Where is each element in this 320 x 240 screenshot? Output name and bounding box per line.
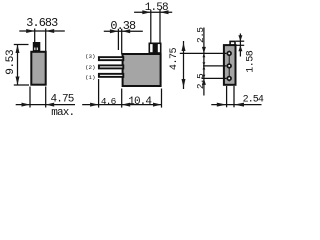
svg-text:4.75: 4.75 <box>50 93 73 105</box>
bottom dims ext body right <box>161 89 163 108</box>
dim 2.54 line <box>211 104 261 106</box>
pin label (1) <box>85 74 95 81</box>
dim 4.75 max left arrow <box>22 103 31 107</box>
dim 0.38 right arrow <box>122 29 131 33</box>
dim 4.6 left arrow <box>90 103 99 107</box>
dim 0.38 label <box>110 19 136 33</box>
svg-text:2.54: 2.54 <box>243 95 264 106</box>
dim 2.5 ext hole1 <box>180 52 227 54</box>
dim 2.54 label <box>243 95 264 106</box>
dim 2.54 right arrow <box>234 103 244 107</box>
dim 2.5 ext hole3 <box>202 77 227 79</box>
dim 4.75 (middle right) label <box>169 47 180 70</box>
dim 3.683 left arrow <box>26 29 35 33</box>
svg-text:(1): (1) <box>85 74 95 81</box>
pin label (3) <box>85 53 95 60</box>
dim 4.6/10.4 middle arrow <box>122 103 131 107</box>
dim 9.53 label <box>5 49 17 75</box>
bottom dims ext pin tip <box>98 79 100 108</box>
dim 10.4 label <box>128 96 152 108</box>
hole centerline <box>228 51 230 82</box>
dim 1.58 (right) ext notch top <box>236 40 244 42</box>
dim 4.75 max ext left <box>29 87 31 108</box>
svg-text:1.58: 1.58 <box>246 50 257 73</box>
dim 0.38 left arrow <box>110 29 119 33</box>
bottom dims ext body left <box>121 89 123 108</box>
dim 1.58 (right) up arrow <box>238 45 242 51</box>
dim 9.53 line <box>17 45 19 86</box>
svg-text:3.683: 3.683 <box>26 16 58 30</box>
dim 2.5 small arrows at hole2 <box>203 62 206 66</box>
dim 9.53 up arrow <box>16 45 20 54</box>
svg-text:max.: max. <box>51 107 74 117</box>
dim 2.5 ext hole2 <box>203 65 226 67</box>
body (middle view) <box>123 54 161 86</box>
dim 4.75 label <box>50 93 73 105</box>
dim 1.58 ext right <box>159 10 161 43</box>
dim 2.5 small up arrow below hole1 <box>203 53 206 57</box>
adjustment screw (middle view) <box>149 43 160 53</box>
hole 2 (middle) <box>227 64 231 68</box>
pin 1 <box>99 74 123 77</box>
dim 4.75 max right arrow <box>46 103 55 107</box>
bottom dim line <box>82 104 161 106</box>
dim 0.38 ext right <box>121 29 123 55</box>
dim 1.58 (right) ext body top <box>237 44 245 46</box>
hole 1 (top) <box>227 52 231 56</box>
dim 3.683 line <box>19 30 65 32</box>
dim 4.75 max ext right <box>45 87 47 108</box>
dim 4.75 (middle right) up arrow <box>182 43 186 52</box>
dim 2.5 top label <box>195 27 206 43</box>
dim 9.53 ext top <box>14 44 29 46</box>
dim 3.683 label <box>26 16 58 30</box>
dim 3.683 extension line left <box>34 29 36 43</box>
svg-text:(2): (2) <box>85 64 95 71</box>
dim 1.58 (right) label <box>246 50 257 73</box>
pin label (2) <box>85 64 95 71</box>
dim 1.58 line (top) <box>134 11 172 13</box>
dim 4.75 (middle right) line <box>183 41 185 89</box>
svg-text:2.5: 2.5 <box>195 73 206 89</box>
svg-text:4.6: 4.6 <box>101 96 117 107</box>
dim 2.5 up arrow at hole3 <box>202 78 206 85</box>
svg-text:4.75: 4.75 <box>169 47 180 70</box>
dim 4.75 (middle right) down arrow <box>182 79 186 88</box>
dim 0.38 ext left <box>117 29 119 50</box>
dim 2.54 ext right <box>233 86 235 107</box>
dim 3.683 right arrow <box>46 29 55 33</box>
dim 2.5 small down arrow above hole3 <box>203 75 206 79</box>
dim 4.75 max line <box>16 104 75 106</box>
dim 2.5 line <box>203 28 205 96</box>
hole 3 (bottom) <box>227 77 231 81</box>
dim 3.683 extension line right <box>45 29 47 53</box>
dim 1.58 right arrow <box>160 10 169 14</box>
dim max. label <box>51 107 74 119</box>
dim 4.6 label <box>101 96 117 107</box>
pin 2 <box>99 65 123 68</box>
svg-text:9.53: 9.53 <box>5 49 17 75</box>
adjustment screw (left view) <box>33 42 41 51</box>
dim 2.54 left arrow <box>217 103 227 107</box>
body (right view) <box>224 45 236 85</box>
pin 3 <box>99 57 123 60</box>
dim 2.5 bottom label <box>195 73 206 89</box>
dim 0.38 line <box>104 30 143 32</box>
dim 1.58 (right) line <box>239 34 241 57</box>
notch (screw end) <box>230 41 235 45</box>
dim 2.54 ext left <box>226 86 228 107</box>
dim 1.58 left arrow <box>142 10 151 14</box>
svg-text:2.5: 2.5 <box>195 27 206 43</box>
dim 1.58 (right) down arrow <box>238 35 242 41</box>
dim 2.5 down arrow at hole1 <box>202 47 206 54</box>
body (left view) <box>31 52 45 85</box>
dim 9.53 ext bottom <box>14 84 29 86</box>
dim 1.58 ext left <box>150 10 152 43</box>
svg-text:(3): (3) <box>85 53 95 60</box>
dim 1.58 label (top) <box>145 2 168 14</box>
dim 10.4 right arrow <box>153 103 162 107</box>
svg-text:10.4: 10.4 <box>128 96 152 108</box>
dim 9.53 down arrow <box>16 77 20 86</box>
